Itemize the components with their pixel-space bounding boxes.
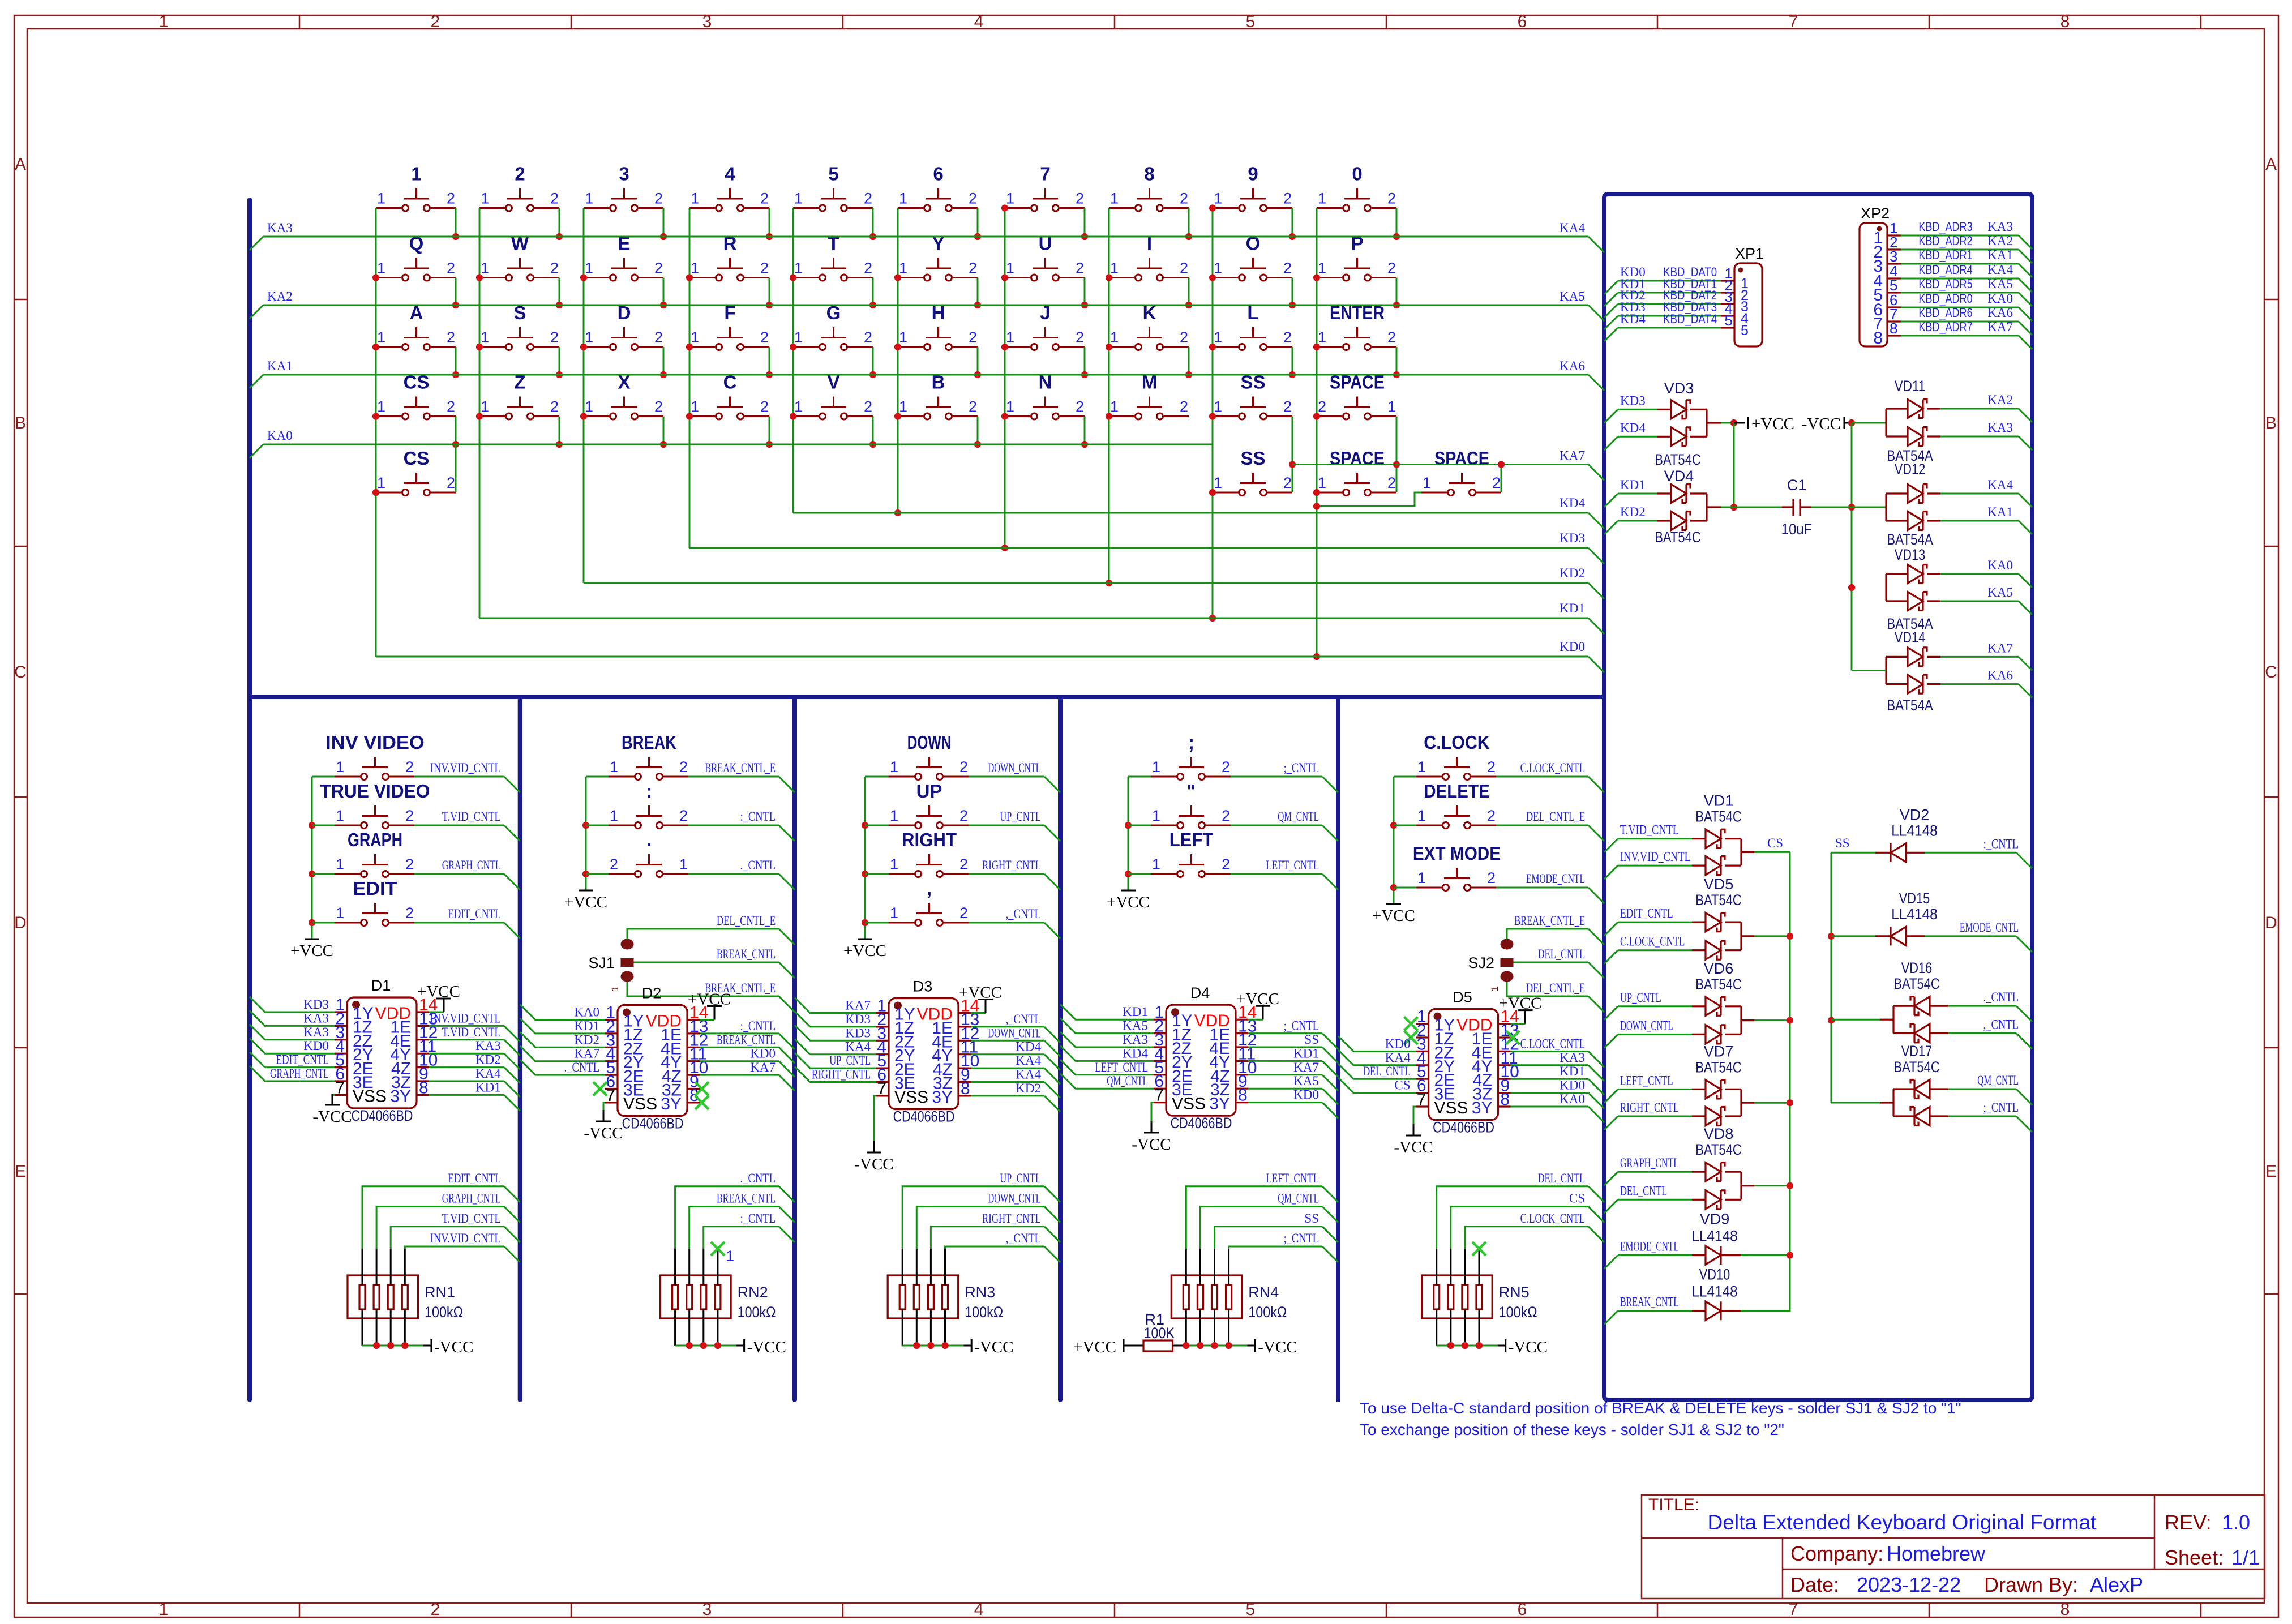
wire DEL_CNTL to D5 pin 5 (1338, 1064, 1416, 1079)
svg-text:+VCC: +VCC (1236, 990, 1279, 1008)
svg-text:VD10: VD10 (1699, 1266, 1730, 1283)
wire CS rail (1741, 836, 1793, 1311)
svg-text:QM_CNTL: QM_CNTL (1278, 1192, 1319, 1206)
svg-text:KA5: KA5 (1987, 277, 2013, 291)
svg-text:2: 2 (760, 398, 769, 415)
wire SS from D4 pin 11 (1248, 1032, 1338, 1063)
svg-text:UP_CNTL: UP_CNTL (1000, 809, 1041, 824)
wire KA7 to D2 pin 4 (520, 1046, 605, 1061)
wire KA3 from D5 pin 10 (1511, 1051, 1605, 1081)
wire key row2 col8 pin2 drop (1185, 278, 1192, 309)
svg-text:2: 2 (447, 329, 455, 346)
svg-text:KD4: KD4 (1620, 312, 1646, 326)
svg-text:KA0: KA0 (267, 429, 293, 443)
svg-text:1: 1 (1006, 398, 1014, 415)
svg-text:KA0: KA0 (1560, 1092, 1585, 1106)
svg-text:EDIT_CNTL: EDIT_CNTL (448, 1171, 501, 1185)
svg-text:1.0: 1.0 (2222, 1511, 2250, 1534)
svg-text:KA3: KA3 (303, 1011, 329, 1025)
svg-text:D1: D1 (371, 977, 391, 994)
svg-text:INV.VID_CNTL: INV.VID_CNTL (430, 1011, 501, 1025)
svg-text:5: 5 (1741, 323, 1749, 338)
key switch D (584, 302, 663, 350)
svg-text:1: 1 (1214, 329, 1222, 346)
wire KA5 from D4 pin 8 (1248, 1074, 1338, 1104)
svg-text:Drawn By:: Drawn By: (1984, 1573, 2078, 1596)
wire ._CNTL to D2 pin 5 (520, 1060, 605, 1075)
svg-text:BAT54C: BAT54C (1695, 808, 1742, 825)
svg-text:4: 4 (974, 1600, 984, 1619)
svg-text:,_CNTL: ,_CNTL (1006, 1231, 1041, 1245)
svg-text:8: 8 (419, 1078, 429, 1097)
bus section divider 4 (1336, 697, 1340, 1400)
svg-text:2: 2 (760, 329, 769, 346)
wire KA0 (250, 429, 1213, 458)
wire BREAK_CNTL (634, 947, 795, 978)
svg-text:Homebrew: Homebrew (1887, 1542, 1986, 1565)
no-connect D2 pin 8 (695, 1082, 709, 1096)
svg-text:VD17: VD17 (1901, 1043, 1932, 1060)
wire QM_CNTL (1930, 1073, 2032, 1105)
svg-text:LL4148: LL4148 (1691, 1283, 1738, 1300)
svg-text:KD1: KD1 (1560, 601, 1585, 615)
svg-text:7: 7 (877, 1079, 886, 1098)
svg-text:EMODE_CNTL: EMODE_CNTL (1960, 920, 2019, 935)
wire KD3 to D3 pin 3 (795, 1025, 876, 1040)
svg-text:8: 8 (1144, 164, 1154, 185)
svg-text:KD4: KD4 (1620, 421, 1646, 435)
svg-text:KD2: KD2 (475, 1053, 501, 1067)
svg-text:VD13: VD13 (1895, 546, 1925, 563)
wire RIGHT_CNTL (969, 858, 1060, 890)
wire KA0 (1927, 558, 2032, 588)
svg-text:1: 1 (726, 1248, 734, 1265)
wire KD1 (1604, 478, 1671, 507)
svg-text:SJ2: SJ2 (1468, 954, 1494, 971)
wire KA7 from D4 pin 9 (1248, 1060, 1338, 1091)
wire KA7 (1292, 449, 1604, 481)
wire KD2 to D2 pin 3 (520, 1032, 605, 1047)
svg-text:+VCC: +VCC (843, 942, 886, 960)
svg-text:RN1: RN1 (425, 1284, 455, 1301)
power -VCC (RN4) (1186, 1338, 1297, 1356)
svg-text:8: 8 (1238, 1086, 1248, 1105)
wire key row4 col7 pin2 drop (1081, 417, 1088, 448)
diode VD9 LL4148 (1691, 1211, 1790, 1265)
svg-text:-VCC: -VCC (974, 1338, 1013, 1356)
svg-text:1: 1 (890, 856, 898, 873)
svg-text:2: 2 (610, 856, 618, 873)
wire EDIT_CNTL (414, 907, 520, 939)
svg-text:KD0: KD0 (1293, 1088, 1319, 1102)
wire SS col9 pin2 drop to KA7 (1289, 417, 1296, 493)
svg-text:To use Delta-C standard positi: To use Delta-C standard position of BREA… (1360, 1399, 1961, 1417)
svg-text:7: 7 (1417, 1090, 1426, 1109)
svg-text:BREAK_CNTL: BREAK_CNTL (717, 947, 776, 961)
key switch 3 (584, 164, 663, 212)
wire KD2 from D3 pin 7 (971, 1081, 1060, 1112)
svg-text:BAT54C: BAT54C (1695, 892, 1742, 909)
svg-text:KA2: KA2 (1987, 234, 2013, 248)
wire KD1 (479, 601, 1604, 634)
svg-text:KA6: KA6 (1560, 359, 1585, 373)
svg-text:INV.VID_CNTL: INV.VID_CNTL (430, 1231, 501, 1245)
svg-text:VD4: VD4 (1664, 468, 1694, 485)
svg-text:-VCC: -VCC (1132, 1135, 1171, 1154)
svg-text:BAT54A: BAT54A (1887, 697, 1933, 714)
wire DEL_CNTL to RN5 (1437, 1171, 1604, 1249)
svg-text:2: 2 (654, 190, 663, 207)
svg-text:VSS: VSS (1172, 1095, 1206, 1113)
svg-text:SPACE: SPACE (1330, 448, 1385, 469)
power flag -VCC (1802, 415, 1855, 433)
svg-text:1: 1 (691, 190, 699, 207)
wire KD3 (1604, 393, 1671, 423)
power -VCC (D3 VSS) (854, 1096, 893, 1173)
dual diode VD6 BAT54C (1695, 960, 1790, 1044)
wire key row2 col5 pin2 drop (869, 278, 876, 309)
svg-text:1: 1 (794, 398, 803, 415)
svg-text:-VCC: -VCC (312, 1108, 352, 1126)
diode VD10 LL4148 (1691, 1266, 1790, 1321)
svg-text:KD2: KD2 (1560, 566, 1585, 580)
svg-text:XP1: XP1 (1735, 245, 1764, 262)
wire key row1 col3 pin2 drop (660, 208, 667, 241)
svg-text:2: 2 (1487, 759, 1496, 775)
svg-text:KA7: KA7 (1987, 320, 2013, 334)
svg-text:XP2: XP2 (1861, 205, 1890, 222)
svg-text:2: 2 (447, 474, 455, 491)
svg-text:KD2: KD2 (1620, 505, 1646, 519)
svg-text:RN2: RN2 (738, 1284, 768, 1301)
svg-text:BAT54A: BAT54A (1887, 531, 1933, 548)
svg-text:KA3: KA3 (1987, 421, 2013, 435)
svg-text:EDIT_CNTL: EDIT_CNTL (276, 1053, 329, 1067)
wire key row3 col5 pin2 drop (869, 347, 876, 378)
svg-text:KA1: KA1 (1987, 505, 2013, 519)
wire :_CNTL (688, 809, 795, 841)
svg-text:1: 1 (585, 398, 593, 415)
svg-text:KA4: KA4 (475, 1066, 501, 1081)
wire KD1 from D5 pin 9 (1511, 1064, 1605, 1095)
dual diode VD4 BAT54C (1655, 468, 1707, 546)
power -VCC (D1 VSS) (312, 1094, 352, 1126)
key switch U (1005, 233, 1085, 281)
wire KA0 to D2 pin 1 (520, 1005, 605, 1020)
wire column 10 pin1 chain (1313, 208, 1320, 661)
no-connect RN5 pin (1472, 1242, 1486, 1256)
svg-text:D: D (2265, 914, 2277, 932)
wire KA4 / KBD_ADR4 from XP2 pin 4 (1901, 263, 2032, 292)
svg-text:1: 1 (1214, 260, 1222, 277)
svg-text:2: 2 (1387, 260, 1396, 277)
key switch BREAK (586, 732, 688, 780)
wire key row3 col3 pin2 drop (660, 347, 667, 378)
wire BREAK_CNTL (1604, 1295, 1706, 1325)
svg-text:UP: UP (916, 781, 942, 802)
svg-text:DOWN_CNTL: DOWN_CNTL (988, 1192, 1041, 1206)
svg-text:VD8: VD8 (1704, 1125, 1734, 1142)
svg-text:LEFT_CNTL: LEFT_CNTL (1266, 858, 1319, 872)
analog switch IC D3 (CD4066BD) (876, 978, 979, 1125)
wire GRAPH_CNTL (1604, 1156, 1706, 1185)
svg-text:1: 1 (1152, 856, 1160, 873)
svg-text:1: 1 (411, 164, 421, 185)
svg-text:;_CNTL: ;_CNTL (1284, 761, 1319, 775)
wire T.VID_CNTL from D1 pin 11 (429, 1025, 520, 1056)
svg-text:KD4: KD4 (1560, 496, 1585, 510)
svg-text:EMODE_CNTL: EMODE_CNTL (1620, 1240, 1679, 1254)
dual diode VD8 BAT54C (1695, 1125, 1790, 1209)
key switch H (898, 302, 978, 350)
svg-text:LEFT_CNTL: LEFT_CNTL (1620, 1073, 1673, 1087)
wire KD1 / KBD_DAT1 to XP1 pin 2 (1604, 277, 1721, 306)
wire DEL_CNTL_E (1507, 981, 1604, 1012)
wire column 9 pin1 chain (1209, 204, 1216, 622)
power -VCC (RN2) (675, 1338, 786, 1356)
svg-text:2: 2 (431, 12, 440, 31)
wire control-keys common (1390, 777, 1397, 904)
svg-text:2: 2 (959, 856, 968, 873)
svg-text:3: 3 (702, 1600, 712, 1619)
svg-text:RIGHT_CNTL: RIGHT_CNTL (1620, 1100, 1679, 1115)
svg-text:2: 2 (550, 329, 559, 346)
wire KD3 to D1 pin 1 (250, 997, 335, 1012)
wire ,_CNTL (1930, 1017, 2032, 1049)
svg-text:4: 4 (974, 12, 984, 31)
no-connect RN2 pin (711, 1242, 734, 1265)
key switch 9 (1213, 164, 1292, 212)
svg-text:2: 2 (550, 398, 559, 415)
svg-text:KD3: KD3 (303, 997, 329, 1012)
svg-text:GRAPH_CNTL: GRAPH_CNTL (442, 858, 501, 872)
key switch M (1109, 372, 1189, 420)
svg-text:DOWN_CNTL: DOWN_CNTL (1620, 1018, 1673, 1032)
svg-text:T.VID_CNTL: T.VID_CNTL (1620, 823, 1679, 837)
svg-text:BREAK_CNTL: BREAK_CNTL (717, 1032, 776, 1047)
svg-text:;_CNTL: ;_CNTL (1284, 1231, 1319, 1245)
key switch LEFT (1128, 829, 1231, 877)
svg-text:KA4: KA4 (1987, 263, 2013, 277)
svg-text:KA4: KA4 (1987, 478, 2013, 492)
svg-text:KA5: KA5 (1560, 289, 1585, 303)
wire INV.VID_CNTL (414, 761, 520, 792)
svg-text:BAT54C: BAT54C (1695, 976, 1742, 993)
svg-text:.: . (646, 829, 652, 850)
svg-text:1: 1 (794, 329, 803, 346)
svg-text:8: 8 (2060, 1600, 2070, 1619)
svg-text:BAT54C: BAT54C (1893, 1059, 1940, 1075)
svg-text:SJ1: SJ1 (588, 954, 615, 971)
wire KD0 from D2 pin 10 (700, 1047, 795, 1077)
wire KD1 to D2 pin 2 (520, 1018, 605, 1034)
svg-text:KBD_ADR7: KBD_ADR7 (1918, 320, 1972, 334)
wire EDIT_CNTL to D1 pin 5 (250, 1052, 335, 1068)
wire SPACE col10 pin2 drop to KA7 (1393, 417, 1400, 493)
svg-text:1: 1 (336, 905, 344, 922)
wire key row2 col9 pin2 drop (1289, 278, 1296, 309)
bus section divider 1 (518, 697, 522, 1400)
wire KA2 / KBD_ADR2 from XP2 pin 2 (1901, 234, 2032, 263)
svg-text:2: 2 (405, 856, 414, 873)
svg-text:2: 2 (1076, 329, 1084, 346)
svg-text:D3: D3 (913, 978, 933, 995)
svg-text:VD15: VD15 (1899, 890, 1930, 907)
svg-text:1: 1 (336, 807, 344, 824)
svg-text:UP_CNTL: UP_CNTL (829, 1053, 871, 1068)
key switch ENTER (1317, 302, 1396, 350)
wire KA4 from D3 pin 8 (971, 1068, 1060, 1098)
svg-text:7: 7 (1040, 164, 1050, 185)
svg-text:CS: CS (1569, 1192, 1585, 1206)
svg-text:1: 1 (691, 398, 699, 415)
resistor network RN4 100kΩ (1171, 1249, 1287, 1346)
svg-text:KA1: KA1 (1987, 248, 2013, 262)
wire C.LOCK_CNTL to RN5 (1465, 1211, 1604, 1249)
svg-text:VD1: VD1 (1704, 792, 1734, 809)
power +VCC (D2 pin 14) (688, 991, 731, 1020)
key switch UP (865, 781, 969, 829)
svg-text:LEFT: LEFT (1169, 829, 1214, 850)
svg-text:1: 1 (1214, 474, 1222, 491)
wire KD4 (1604, 421, 1671, 450)
svg-text:+VCC: +VCC (564, 893, 607, 911)
svg-text:1: 1 (1110, 329, 1119, 346)
svg-text:RN3: RN3 (965, 1284, 995, 1301)
svg-text:1: 1 (890, 759, 898, 775)
svg-text:GRAPH_CNTL: GRAPH_CNTL (442, 1192, 501, 1206)
svg-text:2: 2 (447, 190, 455, 207)
svg-text:KA3: KA3 (1123, 1032, 1148, 1047)
svg-text:KBD_ADR4: KBD_ADR4 (1918, 263, 1972, 277)
connector XP2 (1860, 205, 1901, 348)
svg-text:7: 7 (606, 1086, 615, 1105)
wire KA4 (1927, 478, 2032, 507)
key switch " (1128, 781, 1231, 829)
wire DEL_CNTL_E (1496, 809, 1604, 841)
wire key row1 col7 pin2 drop (1081, 208, 1088, 241)
svg-text:KBD_ADR1: KBD_ADR1 (1918, 248, 1972, 262)
power +VCC (control keys) (843, 939, 886, 960)
svg-text:100kΩ: 100kΩ (425, 1304, 463, 1321)
svg-text:2: 2 (405, 905, 414, 922)
power +VCC (control keys) (1107, 890, 1150, 911)
svg-text:LEFT_CNTL: LEFT_CNTL (1095, 1060, 1148, 1074)
svg-text:1: 1 (159, 12, 169, 31)
wire KD4 from D3 pin 10 (971, 1040, 1060, 1070)
svg-text:VD2: VD2 (1900, 806, 1930, 823)
wire C.LOCK_CNTL (1604, 935, 1706, 964)
wire KA5 to D4 pin 2 (1060, 1018, 1154, 1034)
svg-text:+VCC: +VCC (688, 991, 731, 1009)
svg-text:8: 8 (2060, 12, 2070, 31)
svg-text:KD2: KD2 (1016, 1081, 1041, 1095)
svg-text:1: 1 (377, 329, 385, 346)
svg-text:2: 2 (864, 398, 872, 415)
wire control-keys common (1125, 777, 1132, 890)
svg-text:EDIT_CNTL: EDIT_CNTL (1620, 906, 1673, 920)
key switch DELETE (1394, 781, 1496, 829)
svg-text:To exchange position of these: To exchange position of these keys - sol… (1360, 1421, 1784, 1438)
svg-text:KA5: KA5 (1987, 585, 2013, 599)
svg-text:2: 2 (969, 398, 977, 415)
svg-text:1: 1 (890, 807, 898, 824)
svg-text:2: 2 (1487, 869, 1496, 886)
wire :_CNTL from D2 pin 12 (700, 1019, 795, 1049)
key switch V (793, 372, 873, 420)
svg-text:100kΩ: 100kΩ (738, 1304, 776, 1321)
svg-text:CD4066BD: CD4066BD (352, 1107, 413, 1124)
resistor network RN1 100kΩ (348, 1249, 463, 1346)
wire INV.VID_CNTL from D1 pin 12 (429, 1011, 520, 1042)
wire UP_CNTL to D3 pin 5 (795, 1053, 876, 1068)
wire KA6 / KBD_ADR6 from XP2 pin 7 (1901, 306, 2032, 335)
svg-text:KD4: KD4 (1123, 1046, 1148, 1060)
wire key row2 col2 pin2 drop (556, 278, 563, 309)
svg-text:E: E (2265, 1162, 2277, 1181)
svg-text:DEL_CNTL_E: DEL_CNTL_E (717, 914, 776, 928)
svg-text:KD1: KD1 (1560, 1064, 1585, 1078)
svg-text:100K: 100K (1144, 1325, 1175, 1342)
wire UP_CNTL to RN3 (902, 1171, 1060, 1249)
svg-text:A: A (15, 155, 26, 174)
svg-text:BAT54C: BAT54C (1655, 451, 1701, 468)
key switch 7 (1005, 164, 1085, 212)
wire KA3 to D4 pin 3 (1060, 1032, 1154, 1047)
svg-text:EDIT: EDIT (353, 878, 397, 899)
wire BREAK_CNTL to RN2 (689, 1192, 795, 1249)
wire ._CNTL to RN2 (675, 1171, 795, 1249)
svg-text:8: 8 (1873, 329, 1883, 348)
wire EDIT_CNTL (1604, 906, 1706, 936)
svg-text:DEL_CNTL: DEL_CNTL (1620, 1184, 1667, 1198)
wire ._CNTL (1930, 990, 2032, 1022)
svg-text:,: , (927, 878, 932, 899)
svg-text:VSS: VSS (353, 1087, 387, 1105)
wire KD2 (1604, 505, 1671, 534)
svg-text:INV.VID_CNTL: INV.VID_CNTL (430, 761, 501, 775)
svg-text:6: 6 (1518, 12, 1527, 31)
wire KA6 (1927, 669, 2032, 698)
svg-text:._CNTL: ._CNTL (1983, 990, 2019, 1004)
key switch RIGHT (865, 829, 969, 877)
svg-text:1: 1 (899, 190, 907, 207)
wire KA3 (1927, 421, 2032, 450)
svg-text:1: 1 (899, 329, 907, 346)
wire KA4 to D5 pin 4 (1338, 1050, 1416, 1065)
svg-text:KD0: KD0 (1560, 1078, 1585, 1092)
key switch 1 (376, 164, 456, 212)
wire KD0 (376, 640, 1604, 672)
key switch Q (376, 233, 456, 281)
svg-text:1: 1 (1110, 260, 1119, 277)
svg-text:-VCC: -VCC (854, 1155, 893, 1173)
wire key row3 col4 pin2 drop (766, 347, 773, 378)
svg-text::_CNTL: :_CNTL (1983, 837, 2019, 851)
svg-text:DOWN_CNTL: DOWN_CNTL (988, 1026, 1041, 1040)
title block (1642, 1495, 2265, 1599)
svg-text:KA2: KA2 (1987, 393, 2013, 407)
svg-text:2: 2 (760, 190, 769, 207)
svg-text:CD4066BD: CD4066BD (893, 1108, 955, 1125)
svg-text:C.LOCK_CNTL: C.LOCK_CNTL (1520, 1036, 1585, 1051)
svg-text:KBD_ADR0: KBD_ADR0 (1918, 292, 1972, 306)
svg-text:CD4066BD: CD4066BD (1171, 1115, 1232, 1132)
svg-text:+VCC: +VCC (1372, 907, 1415, 925)
key switch SS (1213, 372, 1292, 420)
svg-text:2: 2 (654, 260, 663, 277)
bus section divider 3 (1058, 697, 1063, 1400)
